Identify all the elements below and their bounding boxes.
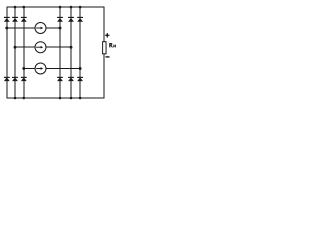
wire column 4 [59, 7, 61, 98]
wire column 5 [70, 7, 72, 98]
wire phase 2 left segment [15, 46, 35, 48]
diode VD2 (top of column at x=15.0) [12, 17, 18, 22]
diode VD9 (bottom of column at x=23.8) [21, 77, 27, 81]
wire column 3 [23, 7, 25, 98]
label + (plus polarity mark) [105, 33, 109, 37]
wire outer loop: top bus + bottom bus + left branch (column 1) + right branch to load [7, 7, 104, 98]
wire phase 3 left segment [24, 68, 35, 70]
wire phase 2 right segment [46, 46, 71, 48]
diode VD11 (bottom of column at x=71.0) [68, 77, 74, 81]
diode VD12 (bottom of column at x=80.1) [77, 77, 83, 81]
wire phase 1 left segment [7, 27, 35, 29]
wire phase 1 right segment [46, 27, 60, 29]
diode VD8 (bottom of column at x=15.0) [12, 77, 18, 81]
wire column 2 [14, 7, 16, 98]
wire phase 3 right segment [46, 68, 80, 70]
diode VD7 (bottom of column at x=6.8) [4, 77, 10, 81]
diode VD10 (bottom of column at x=60.0) [57, 77, 63, 81]
diode VD3 (top of column at x=23.8) [21, 17, 27, 22]
diode VD1 (top of column at x=6.8) [4, 17, 10, 22]
junction dots on bottom bus [14, 97, 82, 100]
wire column 6 [79, 7, 81, 98]
source G3 (AC source circle with right arrow) [35, 63, 46, 74]
junction dots at phase taps [5, 27, 81, 70]
diode VD5 (top of column at x=71.0) [68, 17, 74, 22]
diode VD6 (top of column at x=80.1) [77, 17, 83, 22]
source G2 (AC source circle with right arrow) [35, 42, 46, 53]
source G1 (AC source circle with right arrow) [35, 23, 46, 34]
diode VD4 (top of column at x=60.0) [57, 17, 63, 22]
junction dots on top bus [14, 6, 82, 9]
label Rn (load resistor designator, vector glyphs) [109, 43, 116, 47]
resistor Rn body [103, 42, 106, 54]
label - (minus polarity mark) [106, 56, 110, 58]
